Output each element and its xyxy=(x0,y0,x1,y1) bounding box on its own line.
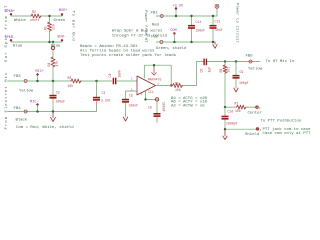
svg-text:C14: C14 xyxy=(196,20,202,24)
svg-text:220: 220 xyxy=(52,24,56,30)
svg-text:R9: R9 xyxy=(219,69,223,73)
svg-text:BUD+: BUD+ xyxy=(59,9,67,13)
svg-text:FB1: FB1 xyxy=(151,12,159,16)
svg-text:C8: C8 xyxy=(148,106,152,110)
svg-text:From Electret Mic: From Electret Mic xyxy=(4,72,9,130)
svg-text:C6: C6 xyxy=(200,69,204,73)
svg-text:3.3nF: 3.3nF xyxy=(101,98,111,102)
svg-text:Power from HT: Power from HT xyxy=(143,10,148,43)
capacitor C2 xyxy=(52,81,54,112)
svg-text:R7: R7 xyxy=(235,102,239,106)
ground com arrow C5 xyxy=(123,117,127,121)
capacitor C14 xyxy=(191,16,193,42)
svg-text:1000pF: 1000pF xyxy=(226,121,238,125)
wire mic- row xyxy=(8,111,97,113)
junction row A xyxy=(48,15,50,17)
junction shield row xyxy=(224,128,226,130)
svg-text:Com = Red, White, shield: Com = Red, White, shield xyxy=(16,125,74,130)
resistor R3 xyxy=(71,79,81,83)
svg-text:Black: Black xyxy=(16,117,28,122)
svg-text:2k2: 2k2 xyxy=(227,67,231,73)
svg-text:through FT-37-43 toroid: through FT-37-43 toroid xyxy=(112,33,168,38)
svg-text:Yellow: Yellow xyxy=(248,66,263,71)
node MIC+ test point xyxy=(37,76,39,81)
node +3.3V test point xyxy=(175,10,177,16)
junction mic+ chain xyxy=(52,80,54,82)
svg-text:C10: C10 xyxy=(228,109,234,113)
svg-text:Green, shield: Green, shield xyxy=(156,46,186,51)
ground com arrow power xyxy=(213,42,217,48)
junction c13 top xyxy=(212,15,214,17)
test point TP3 circle xyxy=(215,4,219,8)
svg-text:FB3: FB3 xyxy=(14,75,22,79)
wire output row xyxy=(156,62,261,86)
pin center xyxy=(256,106,259,109)
junction row B chain xyxy=(52,41,54,43)
ground com arrow op-amp xyxy=(152,65,157,75)
svg-text:short: short xyxy=(30,18,40,22)
svg-text:1uF: 1uF xyxy=(208,67,212,73)
capacitor C5 xyxy=(122,99,129,101)
ground com arrow shield xyxy=(223,129,227,139)
svg-text:+3.3V: +3.3V xyxy=(173,4,184,8)
resistor R7 xyxy=(237,105,246,109)
svg-text:Center: Center xyxy=(248,111,263,116)
junction mic+ stem xyxy=(36,80,38,82)
svg-text:10k: 10k xyxy=(175,88,181,92)
svg-text:Yellow: Yellow xyxy=(19,88,34,93)
svg-text:100uF: 100uF xyxy=(56,99,66,103)
svg-text:47k: 47k xyxy=(55,61,59,67)
wire ptt row xyxy=(225,106,255,108)
svg-text:MIC-: MIC- xyxy=(30,100,38,104)
capacitor C4 xyxy=(113,78,114,85)
capacitor C3 xyxy=(96,81,98,112)
svg-text:Test points create solder pads: Test points create solder pads for leads xyxy=(80,53,177,58)
svg-text:R3: R3 xyxy=(68,76,72,80)
svg-text:FB2: FB2 xyxy=(151,35,159,39)
svg-text:To Ear Bud: To Ear Bud xyxy=(71,11,76,42)
svg-text:FB4: FB4 xyxy=(14,107,22,111)
wire op-amp ground loop xyxy=(144,65,171,85)
svg-text:R4: R4 xyxy=(47,63,51,67)
junction mic+ c3 xyxy=(95,80,97,82)
resistor R2 xyxy=(31,14,41,18)
svg-text:100pF: 100pF xyxy=(239,81,249,85)
svg-text:C9: C9 xyxy=(240,70,244,74)
node SPKR+ test point xyxy=(10,13,12,15)
svg-text:All ferrite beads on lead wire: All ferrite beads on lead wires xyxy=(80,49,155,54)
wire power bottom rail xyxy=(156,41,215,43)
svg-text:C5: C5 xyxy=(129,93,133,97)
ground com arrow C9 xyxy=(234,88,238,92)
resistor R4 vertical xyxy=(51,57,55,67)
svg-text:Beads = Amidon FB-43-301: Beads = Amidon FB-43-301 xyxy=(80,44,138,49)
svg-text:A2 = ACTW = x5: A2 = ACTW = x5 xyxy=(171,104,205,108)
junction com xyxy=(173,41,175,43)
svg-text:10nF: 10nF xyxy=(118,70,122,78)
wire mic+ row xyxy=(8,80,138,82)
capacitor C9 xyxy=(235,62,237,75)
node SPKR- test point xyxy=(10,39,12,41)
wire spkr- row xyxy=(11,41,62,43)
capacitor C8 xyxy=(156,101,158,113)
svg-text:MIC+: MIC+ xyxy=(36,70,44,74)
wire spkr+ row xyxy=(11,15,62,17)
svg-text:R2: R2 xyxy=(32,10,36,14)
svg-text:R5: R5 xyxy=(175,81,179,85)
svg-text:Case com only at PTT: Case com only at PTT xyxy=(263,131,312,136)
svg-text:100nF: 100nF xyxy=(129,104,139,108)
svg-text:White: White xyxy=(14,18,26,23)
junction ptt row xyxy=(224,106,226,108)
ferrite bead FB5 xyxy=(249,60,252,63)
junction c13 bottom xyxy=(212,41,214,43)
junction pin4 xyxy=(144,98,146,100)
resistor R1 vertical xyxy=(49,16,51,42)
svg-text:COM: COM xyxy=(170,29,176,33)
op-amp IC1 xyxy=(137,76,156,95)
resistor R5 xyxy=(173,84,183,88)
junction c14 top xyxy=(190,15,192,17)
wire inverting input xyxy=(126,91,138,99)
node COM test point xyxy=(173,35,175,42)
capacitor C10 xyxy=(224,107,226,116)
junction output r5 xyxy=(170,84,172,86)
svg-text:BUD-: BUD- xyxy=(58,35,66,39)
svg-text:C3: C3 xyxy=(102,91,106,95)
svg-text:To PTT Pushbutton: To PTT Pushbutton xyxy=(261,118,302,123)
svg-text:100nF: 100nF xyxy=(162,102,166,112)
junction row B r1 xyxy=(48,41,50,43)
ferrite bead FB1 xyxy=(160,15,163,18)
test point TP2 circle xyxy=(155,98,158,101)
wire test point chain xyxy=(52,42,54,81)
svg-text:FB5: FB5 xyxy=(246,55,254,59)
ferrite bead FB2 xyxy=(160,41,163,44)
ground com arrow mic xyxy=(51,112,56,122)
ferrite bead FB4 xyxy=(24,110,27,113)
resistor R9 vertical xyxy=(224,62,226,108)
junction ground loop xyxy=(153,64,155,66)
junction c9 node xyxy=(235,60,237,62)
junction c14 bottom xyxy=(190,41,192,43)
junction 3v3 xyxy=(175,15,177,17)
svg-text:Blue: Blue xyxy=(51,43,61,48)
svg-text:Ear Spkr from HT: Ear Spkr from HT xyxy=(4,4,9,62)
wire shield row xyxy=(225,128,256,130)
svg-text:C4: C4 xyxy=(108,74,112,78)
svg-text:Green: Green xyxy=(54,19,66,23)
svg-text:IC1: IC1 xyxy=(148,90,154,94)
svg-text:100nF: 100nF xyxy=(196,28,206,32)
svg-text:C2: C2 xyxy=(56,91,60,95)
svg-text:Shield: Shield xyxy=(245,132,260,137)
node BUD+ test point xyxy=(61,13,63,15)
node MIC- test point xyxy=(37,106,39,112)
wire op-amp pin4 to tp xyxy=(146,91,156,100)
capacitor C6 xyxy=(203,59,204,66)
junction output node xyxy=(224,60,226,62)
svg-text:Blue: Blue xyxy=(13,43,23,48)
svg-text:Red: Red xyxy=(152,22,159,27)
node BUD- test point xyxy=(61,39,63,41)
svg-text:Power to circuit: Power to circuit xyxy=(235,3,240,43)
wire power top rail xyxy=(156,8,217,16)
test point TP1 circle xyxy=(51,46,54,49)
svg-text:10uF: 10uF xyxy=(215,28,223,32)
svg-text:MAX4475: MAX4475 xyxy=(148,78,161,82)
svg-text:Wrap Spkr & Bud wires: Wrap Spkr & Bud wires xyxy=(112,28,163,33)
svg-text:R1: R1 xyxy=(44,26,48,30)
junction mic- com xyxy=(52,110,54,112)
svg-text:C13: C13 xyxy=(215,19,221,23)
pin shield xyxy=(256,128,259,131)
capacitor C13 xyxy=(212,16,214,42)
junction mic- stem xyxy=(36,110,38,112)
svg-text:To HT Mic In: To HT Mic In xyxy=(266,59,295,64)
ferrite bead FB3 xyxy=(24,80,27,83)
svg-text:10k: 10k xyxy=(235,109,241,113)
svg-text:10k: 10k xyxy=(68,84,74,88)
